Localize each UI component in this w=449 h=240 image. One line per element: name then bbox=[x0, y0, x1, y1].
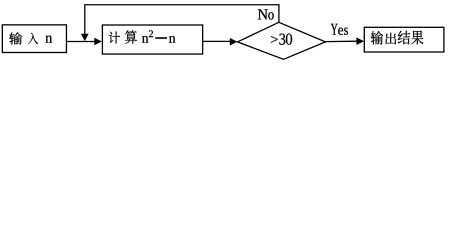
arrowhead into diamond bbox=[230, 38, 238, 46]
arrowhead into box2 bbox=[94, 38, 102, 46]
box 计算 n²-n (process) bbox=[102, 25, 202, 54]
wire loop: up from diamond top bbox=[85, 5, 279, 36]
arrowhead into box3 bbox=[356, 37, 364, 45]
label 输出结果 bbox=[371, 31, 424, 45]
flowchart: 输入n -> 计算n²−n -> (>30?) Yes-> 输出结果 / No-> loop back bbox=[0, 0, 449, 66]
wire box1 to box2 bbox=[67, 41, 97, 43]
box 输出结果 (output) bbox=[364, 27, 444, 52]
arrowhead down onto wire bbox=[81, 34, 89, 41]
label 计算 n²—n bbox=[109, 30, 176, 43]
wire diamond to box3 (Yes) bbox=[326, 40, 358, 42]
wire box2 to diamond bbox=[203, 40, 232, 42]
label Yes bbox=[331, 24, 348, 35]
label No bbox=[258, 9, 274, 19]
dash of n²—n bbox=[155, 37, 167, 39]
decision diamond >30 bbox=[238, 22, 326, 59]
box 输入n (input) bbox=[2, 25, 66, 53]
label 输入 n bbox=[9, 32, 52, 44]
label >30 bbox=[271, 34, 292, 45]
